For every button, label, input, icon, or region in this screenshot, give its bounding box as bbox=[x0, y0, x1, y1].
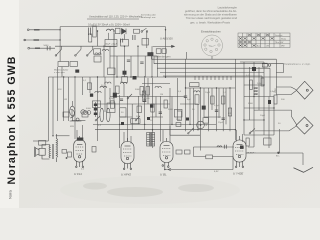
output transformer TR1 bbox=[49, 134, 58, 162]
feeder J1 lower bbox=[276, 91, 296, 95]
box near tube1 b bbox=[68, 152, 72, 157]
trimmer T3 bbox=[147, 117, 150, 120]
svg-text:TA u. KW: TA u. KW bbox=[275, 41, 283, 44]
switch contact K7 bbox=[250, 129, 255, 134]
speaker LS bbox=[34, 145, 50, 160]
svg-text:Umschaltbar auf 110, 125, 220: Umschaltbar auf 110, 125, 220 V~ Wechsel… bbox=[89, 15, 143, 19]
svg-text:geöffnet, dann bei Zimmerlauts: geöffnet, dann bei Zimmerlautstärke die … bbox=[185, 9, 237, 13]
wire vertical x259 bbox=[258, 67, 260, 110]
resistor R10 bbox=[211, 96, 214, 104]
capacitor C13 bbox=[121, 39, 123, 43]
title Noraphon K 555 GWB bbox=[6, 56, 18, 199]
bus main y78 bbox=[48, 76, 292, 78]
coil L5 bbox=[121, 82, 127, 84]
switch box S2b bbox=[70, 62, 78, 67]
capacitor C16 bbox=[140, 62, 143, 64]
coil L1 bbox=[107, 29, 115, 31]
wire top bus bbox=[60, 26, 165, 28]
wire bus y124 bbox=[93, 123, 216, 125]
wire bus y135 bbox=[170, 134, 200, 136]
diamond jack J1 bbox=[296, 81, 313, 134]
wire vertical x216 bbox=[216, 88, 218, 131]
bus ticks bbox=[195, 76, 231, 80]
terminal A1 bbox=[27, 29, 29, 31]
wire drop x108 bbox=[107, 33, 109, 40]
svg-text:Skalenlampen: Skalenlampen bbox=[154, 55, 171, 59]
capacitor C7 bbox=[159, 112, 162, 114]
electrolytic C2 block bbox=[105, 40, 117, 47]
resistor R16 bbox=[122, 77, 128, 83]
svg-text:0,1µF: 0,1µF bbox=[214, 105, 220, 107]
coil L11 bbox=[217, 146, 222, 147]
switch contact K1 bbox=[56, 46, 62, 55]
wire vertical x249 bbox=[249, 67, 251, 120]
switch contact K4 bbox=[128, 94, 132, 98]
tube V2 bbox=[121, 138, 134, 170]
mains arrow bbox=[294, 167, 314, 172]
box B4 bbox=[264, 138, 271, 145]
feeder J2 lower bbox=[255, 126, 297, 131]
switch S1 bbox=[142, 28, 147, 31]
svg-text:Skala: Skala bbox=[281, 38, 287, 40]
wire tie y108 bbox=[244, 107, 274, 109]
wire drop x69 bbox=[68, 77, 70, 121]
phase circle bbox=[197, 121, 205, 129]
resistor R3 bbox=[134, 29, 140, 33]
svg-text:5000: 5000 bbox=[168, 109, 174, 111]
wire tie y120r bbox=[244, 119, 264, 121]
wire drop x62 bbox=[61, 67, 63, 77]
svg-text:0,1µF: 0,1µF bbox=[109, 98, 115, 100]
svg-text:stimmung an der Skala und die: stimmung an der Skala und die einstellba… bbox=[184, 12, 238, 16]
resistor R15 bbox=[108, 68, 116, 75]
wire drop to mains bbox=[279, 129, 281, 153]
svg-text:Lautstärkeregler: Lautstärkeregler bbox=[218, 6, 238, 10]
feeder J2 upper bbox=[254, 110, 297, 125]
wire vertical x145 bbox=[144, 78, 146, 130]
wire tie y85 bbox=[244, 84, 264, 86]
wire tie y96 bbox=[244, 96, 274, 98]
svg-text:0,1µF 6,3V 30mA u.St. 220V~: 0,1µF 6,3V 30mA u.St. 220V~ 50mA bbox=[88, 23, 130, 27]
paper smudges bbox=[83, 183, 214, 198]
wire pair to tube V4 bbox=[194, 147, 235, 157]
wire bus y130 bbox=[95, 129, 235, 131]
vertical extras bbox=[110, 78, 172, 124]
small text labels bbox=[44, 15, 311, 174]
wire vertical x230 bbox=[229, 88, 231, 131]
cluster CL4 right bbox=[250, 80, 253, 90]
wire vertical x138 bbox=[137, 96, 139, 124]
capacitor C15 bbox=[127, 60, 130, 62]
dial lamp circle bbox=[202, 35, 223, 56]
wire drop x97 bbox=[97, 77, 99, 141]
svg-text:Trimmer etwas nachzuregeln ges: Trimmer etwas nachzuregeln gestattet sin… bbox=[186, 16, 238, 20]
svg-text:5000: 5000 bbox=[248, 103, 254, 105]
resistor boxes right of V3 bbox=[176, 150, 182, 154]
svg-text:v. vorn ges.: v. vorn ges. bbox=[54, 71, 66, 74]
resistor R14 bbox=[151, 104, 154, 112]
wire bus y104 bbox=[96, 103, 170, 105]
capacitor C10 bbox=[222, 118, 225, 120]
wire vertical junction x60 bbox=[59, 27, 61, 62]
svg-text:1M: 1M bbox=[228, 113, 231, 115]
capacitor C5 bbox=[120, 99, 123, 101]
capacitor C1 bbox=[89, 28, 91, 36]
heater wire bottom bbox=[165, 145, 313, 173]
wire fan stub bbox=[151, 52, 186, 64]
svg-text:Brückengl. aus: Brückengl. aus bbox=[141, 16, 156, 19]
wire antenna input A2 bbox=[24, 39, 60, 41]
wire antenna input A3 bbox=[30, 47, 56, 49]
lamp block dark bbox=[147, 52, 153, 56]
terminal A2 bbox=[24, 39, 26, 41]
switch contact K3 bbox=[87, 46, 93, 55]
svg-text:Aus: Aus bbox=[257, 45, 260, 48]
wire vertical x223 bbox=[222, 88, 224, 131]
wire vertical x127 bbox=[127, 96, 129, 142]
tuning coil A bbox=[100, 108, 104, 122]
resistor R12 bbox=[228, 108, 231, 116]
wire vertical x208 bbox=[207, 88, 209, 131]
wire drop x48 bbox=[47, 77, 49, 141]
bus fan 3 bbox=[157, 68, 270, 96]
svg-text:6000: 6000 bbox=[86, 108, 92, 110]
wire drop x58 bbox=[57, 67, 59, 121]
trimmer T4 bbox=[186, 118, 189, 121]
capacitor C9 bbox=[215, 110, 218, 112]
top right text block bbox=[184, 6, 238, 25]
tube V1 bbox=[74, 136, 86, 168]
wire drop x90 bbox=[89, 77, 91, 93]
box on line C bbox=[94, 49, 101, 55]
svg-text:+40µF +40µF: +40µF +40µF bbox=[104, 44, 118, 46]
small circle comp bbox=[76, 118, 79, 121]
dot near tube1 bbox=[66, 157, 68, 159]
svg-text:U BL: U BL bbox=[160, 173, 167, 177]
svg-text:5000: 5000 bbox=[44, 45, 50, 47]
IFT cluster CL1 bbox=[87, 83, 91, 90]
resistor R11 bbox=[222, 96, 225, 104]
coil L8 bbox=[95, 53, 101, 55]
wire stubs into tubes bbox=[77, 125, 243, 144]
wire speaker feed y141 bbox=[33, 140, 48, 142]
cluster CL2 bbox=[107, 103, 115, 113]
svg-text:2M: 2M bbox=[120, 82, 123, 84]
coil L9 bbox=[100, 86, 107, 88]
resistor R1b bbox=[89, 34, 92, 42]
wire vertical x114 bbox=[113, 31, 115, 103]
wire lamp feed arrow bbox=[153, 45, 174, 47]
wire vertical x269 bbox=[268, 97, 270, 149]
resistor R18 bbox=[146, 87, 150, 96]
wire tie y62 bbox=[240, 61, 264, 63]
IF transformer T2 winding 2 bbox=[152, 133, 155, 147]
wire drop x97.5 bbox=[97, 31, 99, 47]
oscillator coil L10 bbox=[70, 106, 75, 116]
wire drop x82 bbox=[82, 77, 84, 95]
wire drop x114 bbox=[113, 33, 115, 40]
box fuse bbox=[206, 155, 213, 159]
wire top rule bbox=[87, 18, 139, 20]
trimmer T5 bbox=[123, 71, 127, 75]
wire drop x105 bbox=[104, 77, 106, 112]
resistor R19 bbox=[116, 86, 120, 94]
capacitor C12 bbox=[224, 145, 226, 149]
wire vertical x274 bbox=[273, 97, 275, 136]
wire bus y96 bbox=[110, 96, 185, 98]
trimmer T7 bbox=[150, 105, 153, 108]
switch box S2a bbox=[58, 62, 69, 67]
wire drop x53 bbox=[52, 77, 54, 136]
tuning cap block left bbox=[63, 112, 69, 117]
box near tube1 a bbox=[62, 150, 67, 154]
wire tie y121 bbox=[70, 120, 82, 122]
svg-text:25µF: 25µF bbox=[218, 122, 224, 124]
resistor R1 bbox=[93, 26, 96, 37]
arrowhead A3 bbox=[35, 47, 40, 49]
svg-text:U AF42: U AF42 bbox=[121, 173, 131, 177]
padder caps bbox=[83, 111, 87, 115]
osc transformer core bbox=[95, 102, 97, 117]
small jack box bbox=[262, 63, 267, 67]
svg-text:1M: 1M bbox=[160, 94, 163, 96]
black contact block bbox=[75, 70, 79, 73]
svg-text:Nora: Nora bbox=[8, 190, 13, 199]
capacitor C3 bbox=[121, 40, 129, 47]
bus fan 4 bbox=[160, 72, 264, 74]
switch column verticals bbox=[104, 46, 158, 77]
svg-text:MW: MW bbox=[281, 46, 285, 48]
svg-text:bei Umbau den: bei Umbau den bbox=[141, 15, 157, 17]
svg-text:10µF: 10µF bbox=[205, 92, 211, 94]
IF transformer T2 winding 1 bbox=[147, 133, 150, 147]
horizontal ties bbox=[120, 104, 221, 117]
diamond jack J2 bbox=[296, 117, 313, 134]
trimmer T6 bbox=[133, 76, 137, 80]
arrowhead A2 bbox=[34, 39, 40, 41]
bus fan 5 bbox=[163, 76, 262, 85]
svg-text:6,3V: 6,3V bbox=[214, 171, 219, 173]
wire vertical x200 bbox=[199, 88, 201, 151]
svg-text:U F11: U F11 bbox=[74, 172, 82, 176]
resistor R22 bbox=[92, 147, 96, 153]
switch contact K5 bbox=[136, 116, 140, 120]
wire corner x165.5 bbox=[165, 27, 167, 47]
tube V3 bbox=[160, 138, 173, 170]
lamp box 2 bbox=[162, 49, 166, 54]
wire vertical x165 bbox=[165, 47, 167, 78]
wire switch feed bbox=[55, 45, 116, 47]
wire to arrow bbox=[253, 153, 303, 165]
wire vertical x244 bbox=[243, 62, 245, 135]
wire drop x64 bbox=[63, 77, 65, 121]
svg-text:2000: 2000 bbox=[176, 119, 182, 121]
wire vertical x160 bbox=[159, 96, 161, 142]
wire vertical x185a bbox=[185, 59, 187, 88]
bus fan 2 bbox=[154, 64, 284, 73]
svg-text:U Y42E: U Y42E bbox=[233, 172, 244, 176]
coil L12 bbox=[102, 49, 108, 51]
wire vertical x177 bbox=[176, 78, 178, 111]
resistor R2 bbox=[116, 28, 121, 34]
wire tie y136 bbox=[56, 135, 70, 137]
svg-text:8µF: 8µF bbox=[187, 99, 191, 101]
svg-text:Tonabnehmer u. 2. Ltspr.: Tonabnehmer u. 2. Ltspr. bbox=[284, 63, 311, 66]
resistor R13 bbox=[164, 100, 167, 108]
wire drop x124 bbox=[124, 34, 126, 39]
wire drop x146.5 bbox=[146, 32, 148, 49]
capacitor C4 bbox=[47, 46, 50, 50]
tuning coil B bbox=[106, 108, 110, 122]
coil cluster above tube1 bbox=[39, 141, 46, 146]
IF transformer T2 core bbox=[149, 132, 152, 147]
table top right bbox=[238, 33, 290, 48]
arrowhead A1 bbox=[34, 29, 40, 31]
wire tie y56 bbox=[110, 55, 158, 57]
wire vertical x120 bbox=[119, 95, 121, 148]
wire vertical x235 bbox=[234, 59, 236, 140]
capacitor C8 bbox=[184, 96, 187, 98]
terminal A3 bbox=[28, 47, 30, 49]
svg-text:Drucktst: Drucktst bbox=[275, 34, 283, 37]
switch contact K2 bbox=[76, 46, 82, 55]
svg-text:Noraphon K 555 GWB: Noraphon K 555 GWB bbox=[6, 56, 18, 185]
wire vertical x264 bbox=[263, 62, 265, 135]
wire drop x75 bbox=[74, 77, 76, 139]
resistor R21 bbox=[142, 91, 145, 101]
svg-text:U-AB5/100: U-AB5/100 bbox=[160, 36, 173, 40]
feeder J1 upper bbox=[276, 87, 296, 90]
wire antenna input A1 bbox=[29, 29, 60, 31]
diode D1 bbox=[122, 29, 127, 35]
wire vertical x152 bbox=[152, 78, 154, 148]
bus fan 1 bbox=[151, 59, 276, 94]
scattered value labels bbox=[58, 75, 285, 133]
wire tie y135r bbox=[244, 134, 274, 136]
components below cluster bbox=[246, 138, 249, 146]
box B3 bbox=[142, 39, 149, 46]
wire tie y120 bbox=[72, 120, 86, 122]
coil L6 bbox=[155, 86, 161, 88]
svg-text:2x50: 2x50 bbox=[257, 83, 263, 85]
switch contact K8 bbox=[189, 128, 194, 133]
svg-text:ges. u. bearb. Werkstätten-Pra: ges. u. bearb. Werkstätten-Praxis bbox=[190, 21, 230, 25]
capacitor C6 bbox=[143, 100, 146, 102]
wire vertical x194 bbox=[193, 88, 195, 131]
tube V4 bbox=[233, 136, 253, 168]
switch contact K6 bbox=[96, 116, 100, 120]
capacitor C14 bbox=[133, 35, 135, 40]
svg-text:0,5µF: 0,5µF bbox=[270, 91, 276, 93]
wire vertical x254 bbox=[253, 62, 255, 135]
wire vertical x132 bbox=[131, 104, 133, 130]
wire vertical x170 bbox=[169, 88, 171, 135]
resistor R20 bbox=[247, 152, 255, 154]
IFT box L7 bbox=[94, 56, 101, 62]
wire bus y88 bbox=[186, 87, 236, 89]
wire lamp drop bbox=[211, 56, 213, 59]
lamp box 1 bbox=[156, 49, 161, 54]
svg-text:Einsatzlämpchen: Einsatzlämpchen bbox=[201, 30, 221, 34]
wire vertical x185b bbox=[185, 88, 187, 131]
svg-text:5000: 5000 bbox=[135, 89, 141, 91]
svg-text:LW: LW bbox=[266, 46, 269, 48]
resistor R17 bbox=[140, 87, 144, 96]
svg-text:10µF: 10µF bbox=[260, 115, 266, 117]
cluster CL3 bbox=[190, 83, 199, 87]
wire tie y83.6 bbox=[142, 83, 170, 85]
